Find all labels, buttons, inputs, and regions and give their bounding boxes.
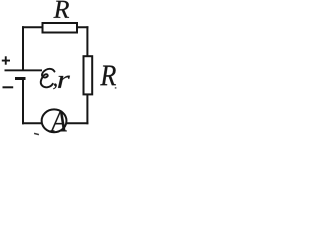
- wire bottom side: [22, 122, 88, 124]
- resistor R2 (right box): [84, 56, 93, 94]
- scan speck below right R: [115, 87, 117, 88]
- minus sign (battery negative terminal): [3, 86, 14, 88]
- label script-E (emf): [41, 69, 55, 87]
- label comma: [53, 84, 56, 90]
- resistor R1 (top box): [43, 23, 78, 33]
- wire left side lower (from battery - plate): [22, 78, 24, 124]
- battery B1 short plate (-): [15, 77, 26, 80]
- scan speck below-left of ammeter: [34, 133, 39, 136]
- label r (internal resistance): [58, 76, 70, 88]
- ammeter A1 (circle): [42, 109, 67, 132]
- wire top side: [22, 26, 88, 28]
- wire left side upper (to battery + plate): [22, 26, 24, 70]
- label R top: [53, 1, 69, 18]
- plus sign (battery positive terminal): [2, 60, 10, 62]
- battery B1 long plate (+): [5, 69, 43, 71]
- label A (ammeter): [50, 111, 67, 131]
- wire right side: [86, 26, 88, 124]
- label R right: [100, 66, 116, 86]
